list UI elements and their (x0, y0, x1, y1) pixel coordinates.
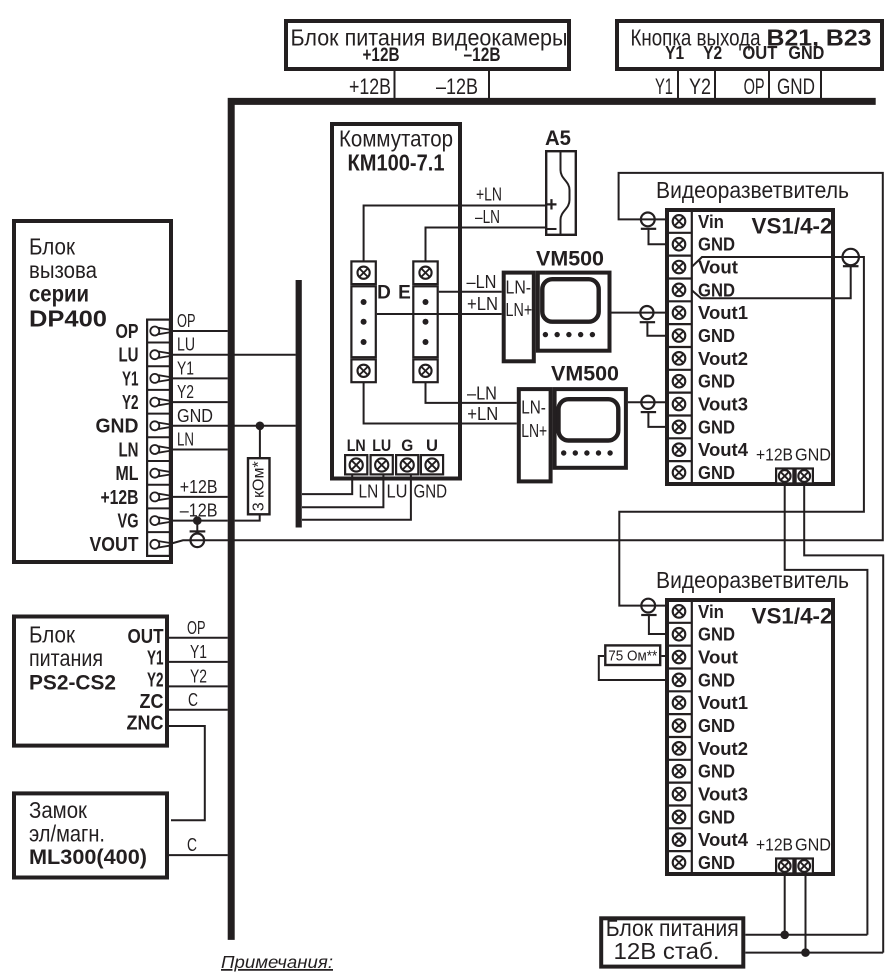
svg-text:VG: VG (118, 511, 139, 533)
svg-text:+LN: +LN (476, 185, 502, 205)
svg-text:+12В: +12В (756, 445, 793, 465)
terminal Vout2 (row 7) of VS1/4-2 #2 (673, 742, 686, 755)
svg-text:Видеоразветвитель: Видеоразветвитель (656, 177, 849, 203)
svg-text:C: C (187, 835, 197, 855)
wire +12В from DP400 to cable (171, 496, 228, 498)
svg-text:LU: LU (387, 482, 408, 502)
terminal GND (row 4) of VS1/4-2 #2 (673, 674, 686, 687)
speaker dot 2 of VM500 #2 (573, 450, 578, 455)
svg-text:LN: LN (347, 437, 366, 455)
wire +12В of VS#1 down right side to PSU (785, 485, 868, 935)
wire LN from DP400 to cable (171, 449, 228, 451)
wire +12В line from PSU 12В (745, 934, 867, 936)
speaker dot 3 of VM500 #1 (566, 332, 571, 337)
svg-text:Блок: Блок (29, 622, 76, 648)
terminal GND (row 2) of VS1/4-2 #2 (673, 628, 686, 641)
wire tick Y1 from exit button to bus (677, 71, 679, 99)
svg-text:VM500: VM500 (551, 363, 619, 386)
svg-text:GND: GND (777, 74, 815, 99)
terminal Vin (row 1) of VS1/4-2 #2 (673, 605, 686, 618)
speaker dot 4 of VM500 #2 (596, 450, 601, 455)
wire tick GND from exit button to bus (820, 71, 822, 99)
svg-text:ML300(400): ML300(400) (29, 846, 147, 869)
speaker dot 2 of VM500 #1 (554, 332, 559, 337)
terminal GND (row 12) of VS1/4-2 #1 (673, 466, 686, 479)
coax shield bar at VS#1 Vout (843, 265, 859, 267)
wire Y1 from PS2-CS2 to cable (169, 661, 228, 663)
coax shield at VS#2 Vin to GND (641, 614, 656, 616)
terminal strip of VS1/4-2 #1 (691, 210, 693, 484)
svg-text:GND: GND (698, 806, 735, 827)
terminal LN of KM100 bottom strip (345, 455, 367, 474)
coax connector at VS#1 Vout3 (641, 411, 656, 413)
svg-text:Замок: Замок (29, 797, 88, 823)
terminal GND (row 8) of VS1/4-2 #1 (673, 375, 686, 388)
wire tick -12В from camera PSU to bus (488, 71, 490, 99)
svg-text:Y1: Y1 (147, 647, 164, 669)
speaker dot 1 of VM500 #1 (543, 332, 548, 337)
svg-text:Vout2: Vout2 (698, 348, 748, 369)
svg-text:+LN: +LN (467, 294, 498, 314)
terminal Vout4 (row 11) of VS1/4-2 #1 (673, 443, 686, 456)
svg-text:G: G (401, 437, 413, 455)
terminal G of KM100 bottom strip (396, 455, 418, 474)
terminal Vout3 (row 9) of VS1/4-2 #2 (673, 788, 686, 801)
jumper strip E bottom terminal (413, 359, 437, 382)
svg-text:LN: LN (119, 439, 139, 461)
block call unit DP400 (Блок вызова серии DP400) (14, 221, 171, 562)
pin VOUT of DP400 (150, 540, 169, 549)
svg-text:GND: GND (177, 406, 213, 426)
coax connector at VS#1 Vout1 (640, 321, 655, 323)
wire main cable bus (thick L: top horizontal + left vertical) (231, 101, 876, 940)
terminal GND (row 8) of VS1/4-2 #2 (673, 765, 686, 778)
wire C from lock ML300 to cable (169, 854, 228, 856)
svg-text:OP: OP (116, 321, 139, 343)
jumper strip D middle section with contacts (351, 286, 375, 357)
svg-text:Блок питания видеокамеры: Блок питания видеокамеры (291, 24, 568, 50)
wire video out of VM500 #1 to VS1/4-2 #1 Vout1 (612, 312, 667, 314)
terminal GND (row 6) of VS1/4-2 #2 (673, 719, 686, 732)
terminal Vout2 (row 7) of VS1/4-2 #1 (673, 352, 686, 365)
wire GND of VS#1 down right side to PSU (804, 485, 883, 953)
svg-text:ZNC: ZNC (127, 713, 164, 735)
svg-text:Y1: Y1 (655, 74, 673, 99)
svg-text:Y1: Y1 (190, 642, 207, 662)
svg-text:Y2: Y2 (147, 669, 164, 691)
terminal LU of KM100 bottom strip (371, 455, 393, 474)
svg-text:LN: LN (359, 482, 379, 502)
wire Y2 from DP400 to cable (171, 401, 228, 403)
terminal +12В of VS#1 (776, 469, 793, 484)
svg-text:VM500: VM500 (536, 247, 604, 270)
node junction GND / 3kOm resistor (256, 422, 265, 431)
wire +LN from strip D top to camera A5 + (364, 206, 545, 263)
svg-text:–LN: –LN (475, 207, 500, 227)
svg-text:Y1: Y1 (177, 358, 194, 378)
coax connector at VS#1 Vin (641, 213, 655, 227)
terminal block LN-/LN+ of VM500 #1 (504, 273, 534, 362)
svg-text:Vin: Vin (698, 211, 724, 232)
svg-text:GND: GND (698, 462, 735, 483)
terminal block LN-/LN+ of VM500 #2 (519, 389, 551, 481)
svg-text:GND: GND (698, 852, 735, 873)
block power supply of video camera (Блок питания видеокамеры) (286, 21, 569, 69)
svg-text:эл/магн.: эл/магн. (29, 820, 105, 846)
pin OP of DP400 (150, 327, 169, 336)
svg-text:GND: GND (698, 624, 735, 645)
svg-text:–LN: –LN (467, 272, 497, 292)
terminal GND (row 4) of VS1/4-2 #1 (673, 284, 686, 297)
svg-text:GND: GND (698, 234, 735, 255)
svg-text:D: D (377, 283, 391, 304)
wire GND from DP400 to KM100 cable bar (171, 425, 296, 427)
svg-text:Y2: Y2 (177, 382, 194, 402)
svg-text:Примечания:: Примечания: (221, 952, 333, 972)
pin Y1 of DP400 (150, 374, 169, 383)
terminal Vout (row 3) of VS1/4-2 #2 (673, 651, 686, 664)
pin +12В of DP400 (150, 492, 169, 501)
terminal GND (row 2) of VS1/4-2 #1 (673, 238, 686, 251)
svg-text:U: U (426, 437, 438, 455)
resistor R 3 кОм* between GND and -12В wires (259, 426, 261, 457)
wire tick OP from exit button to bus (768, 71, 770, 99)
svg-text:ML: ML (116, 463, 139, 485)
terminal Vout4 (row 11) of VS1/4-2 #2 (673, 833, 686, 846)
svg-text:12В стаб.: 12В стаб. (614, 938, 720, 964)
block electromagnetic lock ML300(400) (Замок эл/магн.) (14, 793, 167, 877)
wire VOUT video line from DP400 to VS1/4-2 #1 Vin (long route) (171, 173, 883, 544)
coax shield at VS#1 Vin to GND (641, 228, 656, 230)
svg-text:GND: GND (96, 416, 139, 438)
svg-text:Y2: Y2 (190, 666, 207, 686)
wire -LN from strip E bottom to VM500 #2 (426, 382, 517, 403)
block exit button B21,B23 (Кнопка выхода) (617, 21, 882, 69)
svg-text:VS1/4-2: VS1/4-2 (752, 214, 833, 239)
svg-text:GND: GND (698, 761, 735, 782)
terminal GND of VS#1 (796, 469, 813, 484)
svg-text:C: C (188, 690, 198, 710)
terminal Vout1 (row 5) of VS1/4-2 #1 (673, 306, 686, 319)
coax connector at VS#2 Vin (641, 599, 655, 613)
pin Y2 of DP400 (150, 398, 169, 407)
svg-text:PS2-CS2: PS2-CS2 (29, 672, 116, 695)
svg-text:Vout1: Vout1 (698, 302, 748, 323)
pin ML of DP400 (150, 469, 169, 478)
svg-text:Vout3: Vout3 (698, 394, 748, 415)
wire -12В from DP400 (VG) to cable (171, 520, 228, 522)
terminal GND (row 10) of VS1/4-2 #1 (673, 421, 686, 434)
svg-text:вызова: вызова (29, 257, 97, 283)
wire tick +12В from camera PSU to bus (394, 71, 396, 99)
wire -LN from strip E to VM500 #1 (439, 291, 502, 293)
wire video out of VM500 #2 to VS1/4-2 #1 Vout3 (628, 401, 667, 403)
resistor R 75 Ом** terminating VS#2 Vout (599, 656, 667, 680)
wire OP from PS2-CS2 OUT to cable (169, 637, 228, 639)
svg-text:–12В: –12В (464, 44, 501, 66)
speaker dot 1 of VM500 #2 (561, 450, 566, 455)
terminal GND (row 12) of VS1/4-2 #2 (673, 856, 686, 869)
pin GND of DP400 (150, 421, 169, 430)
svg-text:LU: LU (177, 335, 195, 355)
svg-text:LN: LN (177, 430, 194, 450)
wire GND from KM100 to cable bar (302, 476, 411, 520)
svg-text:LN+: LN+ (521, 421, 547, 441)
pin LU of DP400 (150, 350, 169, 359)
coax connector at DP400 VOUT (shield to -12В) (196, 521, 198, 532)
svg-text:VS1/4-2: VS1/4-2 (752, 604, 833, 629)
terminal +12В of VS#2 (776, 859, 793, 874)
terminal U of KM100 bottom strip (421, 455, 443, 474)
svg-text:–: – (546, 218, 557, 240)
svg-text:ZC: ZC (140, 691, 164, 713)
svg-text:GND: GND (795, 445, 831, 465)
node junction -12В / VOUT shield (193, 516, 202, 525)
wire Y1 from DP400 to cable (171, 377, 228, 379)
svg-text:Кнопка выхода: Кнопка выхода (631, 24, 761, 50)
wire +12В of VS#2 to PSU line (784, 875, 786, 935)
svg-text:OUT: OUT (128, 626, 164, 648)
jumper strip E middle section with contacts (413, 286, 437, 357)
svg-text:+12В: +12В (756, 835, 793, 855)
wire GND of VS#2 to PSU line (805, 875, 807, 953)
svg-text:OP: OP (187, 618, 206, 638)
svg-text:+: + (546, 194, 558, 216)
wire +LN from strip D bottom to VM500 #2 (364, 382, 517, 424)
svg-text:VOUT: VOUT (90, 534, 139, 556)
svg-text:LU: LU (119, 345, 139, 367)
svg-text:серии: серии (29, 280, 89, 306)
svg-text:питания: питания (29, 645, 103, 671)
svg-text:Vin: Vin (698, 601, 724, 622)
svg-text:+12В: +12В (349, 74, 391, 99)
svg-text:Vout3: Vout3 (698, 784, 748, 805)
node junction GND of VS#2 (801, 948, 810, 957)
svg-text:Y1: Y1 (665, 42, 684, 63)
terminal GND of VS#2 (796, 859, 813, 874)
svg-text:+LN: +LN (467, 404, 498, 424)
svg-text:OUT: OUT (742, 42, 778, 63)
wire -LN from strip E top to camera A5 - (426, 228, 546, 263)
svg-text:Коммутатор: Коммутатор (339, 126, 453, 152)
wire LN from KM100 to cable bar (302, 476, 352, 495)
svg-text:+12В: +12В (101, 487, 139, 509)
svg-text:75 Ом**: 75 Ом** (608, 649, 657, 665)
terminal Vout (row 3) of VS1/4-2 #1 (673, 261, 686, 274)
node junction +12В of VS#2 (780, 931, 789, 940)
terminal Vout1 (row 5) of VS1/4-2 #2 (673, 696, 686, 709)
svg-text:3 кОм*: 3 кОм* (251, 461, 268, 511)
terminal GND (row 10) of VS1/4-2 #2 (673, 811, 686, 824)
svg-text:A5: A5 (545, 127, 571, 150)
svg-text:Vout4: Vout4 (698, 829, 749, 850)
speaker dot 4 of VM500 #1 (578, 332, 583, 337)
svg-text:Vout2: Vout2 (698, 738, 748, 759)
svg-text:GND: GND (698, 669, 735, 690)
svg-text:LU: LU (372, 437, 391, 455)
wire +LN from strip D to VM500 #1 (crosses strip E) (377, 313, 502, 315)
screen of VM500 #1 (542, 279, 598, 322)
wire tick Y2 from exit button to bus (714, 71, 716, 99)
terminal Vout3 (row 9) of VS1/4-2 #1 (673, 398, 686, 411)
svg-text:Vout: Vout (698, 257, 738, 278)
speaker dot 5 of VM500 #1 (590, 332, 595, 337)
svg-text:+12В: +12В (363, 44, 400, 66)
terminal strip of VS1/4-2 #2 (691, 600, 693, 874)
jumper strip E of KM100 (top terminal) (413, 261, 437, 284)
svg-text:Y2: Y2 (689, 74, 711, 99)
wire Vout of VS#1 to VS#2 Vin (long route down right side) (619, 257, 864, 606)
svg-text:–12В: –12В (436, 74, 478, 99)
svg-text:GND: GND (414, 482, 448, 502)
svg-text:Y2: Y2 (703, 42, 722, 63)
screen of VM500 #2 (559, 399, 619, 440)
svg-text:OP: OP (177, 311, 196, 331)
svg-text:LN-: LN- (521, 398, 546, 418)
block power supply 12В стаб. (Блок питания 12В стаб.) (601, 918, 743, 966)
speaker dot 3 of VM500 #2 (584, 450, 589, 455)
svg-text:Видеоразветвитель: Видеоразветвитель (656, 567, 849, 593)
svg-text:E: E (398, 283, 411, 304)
wire LU from DP400 to KM100 cable bar (171, 354, 296, 356)
svg-text:GND: GND (788, 42, 824, 63)
svg-text:GND: GND (795, 835, 831, 855)
svg-text:OP: OP (744, 74, 765, 99)
jumper strip D of KM100 (top terminal) (351, 261, 375, 284)
svg-text:Vout4: Vout4 (698, 439, 749, 460)
wire Y2 from PS2-CS2 to cable (169, 685, 228, 687)
svg-text:GND: GND (698, 371, 735, 392)
connector strip of DP400 (10 pins) (147, 320, 170, 556)
svg-text:LN-: LN- (506, 278, 532, 298)
svg-text:–LN: –LN (467, 383, 497, 403)
svg-text:КМ100-7.1: КМ100-7.1 (348, 150, 445, 176)
svg-text:LN+: LN+ (506, 300, 533, 320)
wire ZNC from PS2-CS2 to lock ML300 (169, 726, 205, 820)
svg-text:Блок: Блок (29, 234, 76, 260)
svg-text:Y2: Y2 (122, 392, 139, 414)
svg-text:GND: GND (698, 279, 735, 300)
svg-text:Vout1: Vout1 (698, 692, 748, 713)
terminal Vin (row 1) of VS1/4-2 #1 (673, 215, 686, 228)
pin VG of DP400 (150, 516, 169, 525)
wire cable bar LU/GND (thick vertical near KM100) (296, 280, 302, 528)
svg-text:GND: GND (698, 715, 735, 736)
svg-text:GND: GND (698, 416, 735, 437)
svg-text:GND: GND (698, 325, 735, 346)
svg-text:Y1: Y1 (122, 368, 139, 390)
block commutator KM100-7.1 (Коммутатор) (332, 124, 460, 479)
wire LU from KM100 to cable bar (302, 476, 383, 508)
pin LN of DP400 (150, 445, 169, 454)
block power supply PS2-CS2 (Блок питания PS2-CS2) (14, 617, 167, 746)
jumper strip D bottom terminal (351, 359, 375, 382)
speaker dot 5 of VM500 #2 (607, 450, 612, 455)
wire GND row4 of VS#1 to Vout coax shield (692, 266, 851, 298)
wire OP from DP400 to cable (171, 330, 228, 332)
svg-text:DP400: DP400 (29, 306, 107, 332)
terminal GND (row 6) of VS1/4-2 #1 (673, 329, 686, 342)
wire GND line from PSU 12В (745, 952, 883, 954)
wire C from PS2-CS2 ZC to cable (169, 709, 228, 711)
coax connector at VS#1 Vout (843, 249, 859, 265)
svg-text:Vout: Vout (698, 647, 738, 668)
svg-text:+12В: +12В (180, 477, 218, 497)
